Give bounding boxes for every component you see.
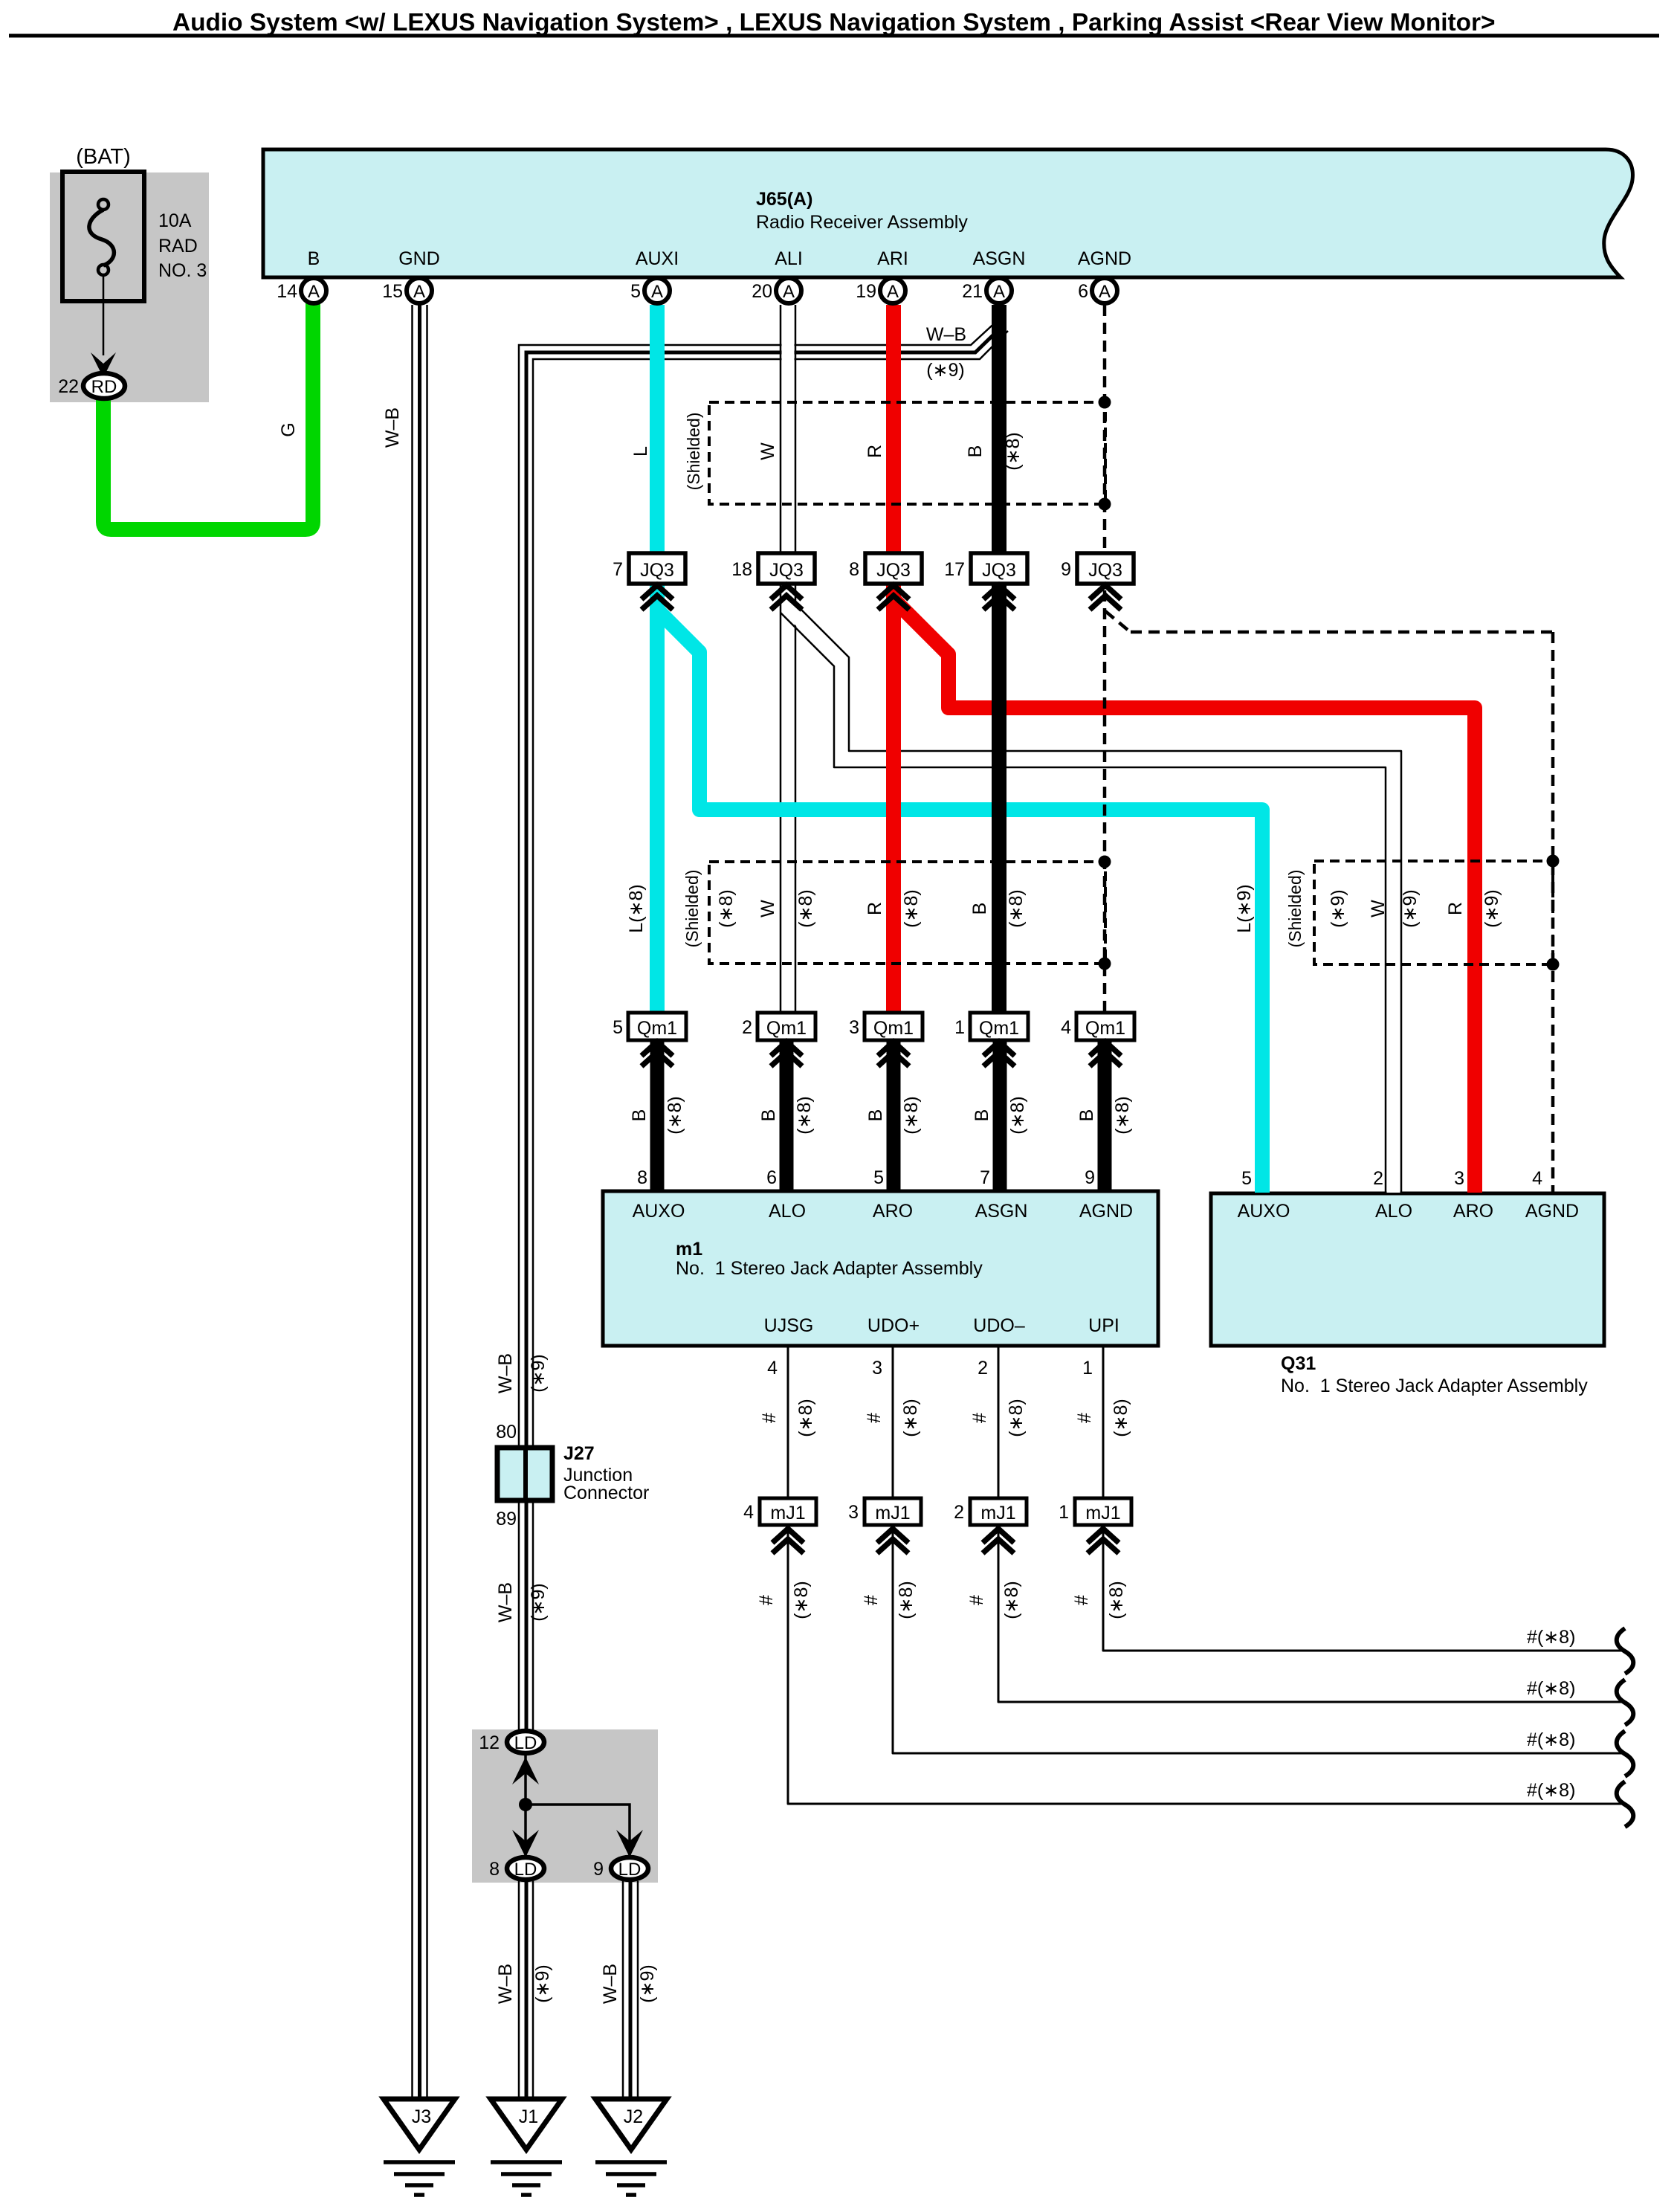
svg-text:mJ1: mJ1 bbox=[980, 1503, 1015, 1523]
svg-text:(∗8): (∗8) bbox=[665, 1096, 685, 1135]
svg-text:(∗9): (∗9) bbox=[532, 1964, 553, 2003]
svg-text:UJSG: UJSG bbox=[764, 1315, 814, 1336]
svg-text:10A: 10A bbox=[158, 210, 192, 231]
svg-text:12: 12 bbox=[479, 1732, 500, 1753]
svg-text:#: # bbox=[861, 1595, 882, 1605]
svg-text:AGND: AGND bbox=[1078, 248, 1131, 269]
svg-text:(∗8): (∗8) bbox=[1111, 1399, 1131, 1437]
svg-text:B: B bbox=[965, 445, 986, 458]
svg-text:L(∗8): L(∗8) bbox=[626, 884, 647, 932]
svg-text:R: R bbox=[865, 445, 885, 458]
svg-text:B: B bbox=[972, 1109, 992, 1122]
svg-text:ALI: ALI bbox=[775, 248, 803, 269]
svg-text:(∗9): (∗9) bbox=[926, 360, 965, 381]
svg-text:LD: LD bbox=[514, 1733, 537, 1753]
svg-text:6: 6 bbox=[1078, 281, 1088, 302]
svg-text:W: W bbox=[757, 442, 778, 460]
svg-text:AGND: AGND bbox=[1079, 1201, 1133, 1222]
svg-text:(∗8): (∗8) bbox=[795, 889, 816, 928]
svg-text:19: 19 bbox=[856, 281, 876, 302]
svg-text:Qm1: Qm1 bbox=[873, 1018, 914, 1039]
svg-text:1: 1 bbox=[1082, 1358, 1093, 1379]
svg-text:A: A bbox=[783, 282, 795, 302]
svg-text:A: A bbox=[651, 282, 663, 302]
svg-text:(∗8): (∗8) bbox=[1007, 1096, 1028, 1135]
svg-text:5: 5 bbox=[613, 1017, 623, 1038]
svg-text:J27: J27 bbox=[563, 1443, 595, 1464]
svg-text:5: 5 bbox=[630, 281, 641, 302]
svg-text:A: A bbox=[887, 282, 899, 302]
svg-text:#: # bbox=[969, 1413, 990, 1423]
svg-text:80: 80 bbox=[496, 1422, 517, 1442]
svg-text:(Shielded): (Shielded) bbox=[682, 870, 702, 948]
svg-text:W–B: W–B bbox=[382, 407, 403, 448]
svg-text:(Shielded): (Shielded) bbox=[1285, 870, 1305, 948]
svg-text:LD: LD bbox=[514, 1860, 537, 1880]
svg-text:W–B: W–B bbox=[495, 1964, 516, 2004]
svg-text:JQ3: JQ3 bbox=[982, 560, 1016, 581]
svg-text:(∗8): (∗8) bbox=[901, 1096, 922, 1135]
svg-text:RAD: RAD bbox=[158, 236, 198, 257]
svg-text:J2: J2 bbox=[624, 2106, 643, 2127]
svg-text:(∗8): (∗8) bbox=[794, 1096, 815, 1135]
svg-text:AGND: AGND bbox=[1525, 1201, 1579, 1222]
svg-text:(∗8): (∗8) bbox=[901, 889, 922, 928]
svg-text:B: B bbox=[969, 903, 990, 915]
svg-text:AUXO: AUXO bbox=[1238, 1201, 1290, 1222]
svg-text:R: R bbox=[865, 902, 885, 915]
svg-text:18: 18 bbox=[731, 559, 752, 580]
svg-text:#(∗8): #(∗8) bbox=[1527, 1729, 1575, 1750]
svg-text:ASGN: ASGN bbox=[973, 248, 1026, 269]
svg-text:#(∗8): #(∗8) bbox=[1527, 1627, 1575, 1648]
svg-text:Audio System <w/ LEXUS Navigat: Audio System <w/ LEXUS Navigation System… bbox=[172, 9, 1496, 36]
svg-text:21: 21 bbox=[962, 281, 983, 302]
svg-text:UDO–: UDO– bbox=[973, 1315, 1025, 1336]
svg-text:Qm1: Qm1 bbox=[979, 1018, 1019, 1039]
svg-text:8: 8 bbox=[849, 559, 859, 580]
svg-text:A: A bbox=[308, 282, 320, 302]
svg-text:Radio Receiver Assembly: Radio Receiver Assembly bbox=[756, 212, 968, 233]
svg-text:J3: J3 bbox=[412, 2106, 431, 2127]
svg-text:A: A bbox=[993, 282, 1005, 302]
svg-text:(∗8): (∗8) bbox=[795, 1399, 816, 1437]
svg-text:J65(A): J65(A) bbox=[756, 189, 812, 210]
svg-text:1: 1 bbox=[1059, 1502, 1069, 1523]
svg-text:J1: J1 bbox=[519, 2106, 538, 2127]
svg-text:B: B bbox=[865, 1109, 886, 1122]
svg-text:W: W bbox=[1368, 900, 1389, 918]
svg-text:(∗9): (∗9) bbox=[1481, 889, 1502, 928]
svg-text:3: 3 bbox=[848, 1502, 859, 1523]
svg-text:(∗9): (∗9) bbox=[528, 1354, 549, 1393]
svg-text:UPI: UPI bbox=[1088, 1315, 1119, 1336]
svg-text:(∗8): (∗8) bbox=[1112, 1096, 1133, 1135]
svg-text:LD: LD bbox=[618, 1860, 642, 1880]
svg-text:ARO: ARO bbox=[1453, 1201, 1493, 1222]
svg-text:mJ1: mJ1 bbox=[770, 1503, 805, 1523]
svg-text:ARO: ARO bbox=[873, 1201, 913, 1222]
svg-text:#: # bbox=[966, 1595, 987, 1605]
svg-text:(∗9): (∗9) bbox=[637, 1964, 658, 2003]
svg-text:JQ3: JQ3 bbox=[640, 560, 674, 581]
svg-text:4: 4 bbox=[1061, 1017, 1071, 1038]
svg-text:22: 22 bbox=[58, 376, 79, 397]
svg-text:Qm1: Qm1 bbox=[1085, 1018, 1125, 1039]
svg-text:B: B bbox=[758, 1109, 779, 1122]
svg-text:m1: m1 bbox=[676, 1239, 702, 1260]
svg-text:2: 2 bbox=[1373, 1168, 1383, 1189]
svg-text:No. 1 Stereo Jack Adapter Ass: No. 1 Stereo Jack Adapter Assembly bbox=[1281, 1376, 1588, 1396]
svg-text:(BAT): (BAT) bbox=[76, 145, 131, 169]
svg-text:#: # bbox=[1071, 1595, 1092, 1605]
svg-text:(∗9): (∗9) bbox=[1328, 889, 1348, 928]
svg-text:R: R bbox=[1445, 902, 1466, 915]
svg-text:9: 9 bbox=[1085, 1167, 1095, 1188]
svg-text:9: 9 bbox=[593, 1859, 604, 1880]
svg-text:14: 14 bbox=[277, 281, 297, 302]
svg-text:NO. 3: NO. 3 bbox=[158, 260, 207, 281]
svg-text:JQ3: JQ3 bbox=[769, 560, 804, 581]
svg-text:2: 2 bbox=[742, 1017, 752, 1038]
svg-text:(∗8): (∗8) bbox=[1006, 1399, 1027, 1437]
svg-text:8: 8 bbox=[637, 1167, 647, 1188]
svg-text:W–B: W–B bbox=[926, 324, 966, 345]
svg-text:#: # bbox=[864, 1413, 885, 1423]
svg-text:W–B: W–B bbox=[495, 1353, 516, 1393]
svg-text:mJ1: mJ1 bbox=[1085, 1503, 1120, 1523]
svg-text:A: A bbox=[1099, 282, 1111, 302]
svg-text:5: 5 bbox=[873, 1167, 884, 1188]
svg-text:(∗8): (∗8) bbox=[900, 1399, 921, 1437]
svg-text:W: W bbox=[757, 900, 778, 918]
svg-text:Q31: Q31 bbox=[1281, 1353, 1316, 1374]
svg-text:B: B bbox=[629, 1109, 650, 1122]
svg-text:2: 2 bbox=[954, 1502, 964, 1523]
svg-text:(∗9): (∗9) bbox=[1400, 889, 1421, 928]
svg-text:17: 17 bbox=[944, 559, 965, 580]
svg-text:#: # bbox=[759, 1413, 780, 1423]
svg-text:JQ3: JQ3 bbox=[1088, 560, 1122, 581]
svg-text:AUXO: AUXO bbox=[633, 1201, 685, 1222]
svg-text:(∗8): (∗8) bbox=[791, 1581, 812, 1619]
svg-text:20: 20 bbox=[752, 281, 772, 302]
svg-text:JQ3: JQ3 bbox=[876, 560, 911, 581]
svg-text:ARI: ARI bbox=[877, 248, 908, 269]
svg-text:4: 4 bbox=[743, 1502, 754, 1523]
svg-text:3: 3 bbox=[849, 1017, 859, 1038]
svg-text:(∗8): (∗8) bbox=[1106, 1581, 1127, 1619]
svg-text:2: 2 bbox=[978, 1358, 988, 1379]
svg-text:(Shielded): (Shielded) bbox=[684, 413, 703, 491]
svg-text:7: 7 bbox=[613, 559, 623, 580]
svg-text:(∗8): (∗8) bbox=[716, 889, 737, 928]
svg-text:#(∗8): #(∗8) bbox=[1527, 1780, 1575, 1801]
svg-text:B: B bbox=[1076, 1109, 1097, 1122]
svg-text:ALO: ALO bbox=[1375, 1201, 1412, 1222]
svg-text:L: L bbox=[630, 446, 651, 457]
svg-text:3: 3 bbox=[1454, 1168, 1464, 1189]
svg-text:15: 15 bbox=[382, 281, 403, 302]
svg-text:UDO+: UDO+ bbox=[867, 1315, 920, 1336]
svg-text:#(∗8): #(∗8) bbox=[1527, 1678, 1575, 1699]
svg-text:G: G bbox=[278, 422, 299, 436]
svg-text:(∗9): (∗9) bbox=[528, 1583, 549, 1622]
svg-text:4: 4 bbox=[1532, 1168, 1542, 1189]
svg-text:5: 5 bbox=[1241, 1168, 1252, 1189]
svg-text:89: 89 bbox=[496, 1509, 517, 1529]
svg-text:Connector: Connector bbox=[563, 1483, 649, 1503]
svg-text:Qm1: Qm1 bbox=[766, 1018, 807, 1039]
svg-text:Qm1: Qm1 bbox=[637, 1018, 677, 1039]
svg-text:A: A bbox=[413, 282, 425, 302]
svg-text:1: 1 bbox=[954, 1017, 965, 1038]
svg-text:AUXI: AUXI bbox=[636, 248, 679, 269]
svg-text:No. 1 Stereo Jack Adapter Ass: No. 1 Stereo Jack Adapter Assembly bbox=[676, 1258, 983, 1279]
svg-text:9: 9 bbox=[1061, 559, 1071, 580]
svg-text:(∗8): (∗8) bbox=[1006, 889, 1027, 928]
svg-text:RD: RD bbox=[91, 377, 117, 397]
svg-text:L(∗9): L(∗9) bbox=[1234, 884, 1255, 932]
svg-text:7: 7 bbox=[980, 1167, 990, 1188]
svg-text:#: # bbox=[1074, 1413, 1095, 1423]
svg-text:3: 3 bbox=[872, 1358, 882, 1379]
svg-text:W–B: W–B bbox=[600, 1964, 621, 2004]
svg-text:(∗8): (∗8) bbox=[1003, 432, 1024, 471]
svg-text:ALO: ALO bbox=[769, 1201, 806, 1222]
svg-text:6: 6 bbox=[766, 1167, 777, 1188]
svg-text:#: # bbox=[756, 1595, 777, 1605]
svg-text:(∗8): (∗8) bbox=[896, 1581, 917, 1619]
svg-text:GND: GND bbox=[398, 248, 440, 269]
svg-text:W–B: W–B bbox=[495, 1582, 516, 1622]
svg-text:ASGN: ASGN bbox=[975, 1201, 1028, 1222]
svg-text:mJ1: mJ1 bbox=[875, 1503, 910, 1523]
svg-text:(∗8): (∗8) bbox=[1001, 1581, 1022, 1619]
svg-text:B: B bbox=[308, 248, 320, 269]
svg-text:8: 8 bbox=[489, 1859, 500, 1880]
svg-text:4: 4 bbox=[767, 1358, 778, 1379]
